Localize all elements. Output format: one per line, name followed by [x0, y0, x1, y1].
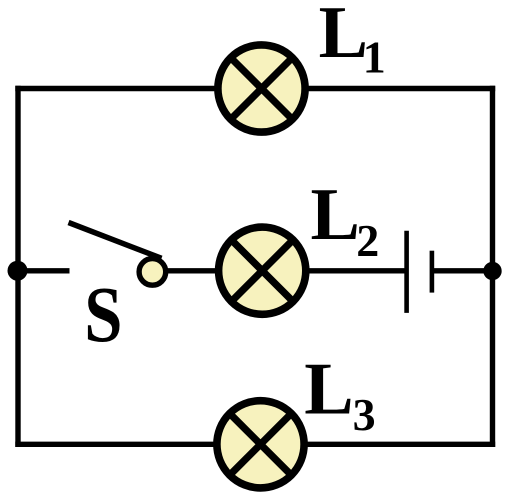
- wire: switch contact to battery (passes under lamp L2): [164, 268, 407, 273]
- svg-text:L: L: [319, 0, 368, 74]
- wire: middle branch left stub (node to switch): [15, 268, 69, 273]
- svg-text:1: 1: [363, 32, 386, 83]
- switch S blade (open arm): [69, 223, 162, 259]
- svg-text:L: L: [311, 174, 360, 256]
- svg-text:2: 2: [356, 215, 379, 266]
- wire: left vertical: [15, 86, 20, 447]
- node: right junction: [483, 262, 501, 280]
- wire: bottom branch: [15, 442, 495, 447]
- label L1: [319, 0, 386, 83]
- svg-text:3: 3: [353, 389, 376, 440]
- lamp L1: [218, 45, 305, 132]
- label L2: [311, 174, 380, 266]
- lamp L2: [219, 227, 306, 314]
- battery long plate (positive): [404, 231, 409, 313]
- wire: battery to right node: [432, 268, 493, 273]
- label L3: [304, 349, 375, 440]
- lamp L3: [217, 401, 304, 488]
- battery short plate (negative): [430, 251, 435, 293]
- wire: right vertical: [490, 86, 495, 447]
- wire: top branch: [15, 86, 495, 91]
- node: left junction: [8, 261, 28, 281]
- svg-text:L: L: [304, 349, 353, 431]
- svg-text:S: S: [84, 272, 122, 359]
- switch S contact circle: [139, 259, 166, 286]
